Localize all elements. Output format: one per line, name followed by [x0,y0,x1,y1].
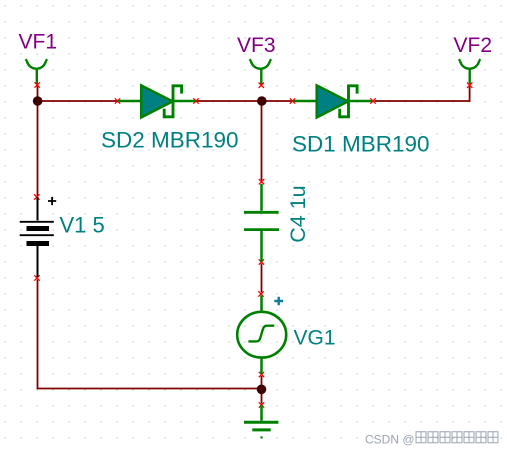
ground [244,405,278,437]
label VF3 [237,34,276,57]
pin x: battery V1 bottom [34,275,39,280]
diode SD1 [294,85,373,117]
label VG1 [294,327,336,350]
label SD2 MBR190 [101,128,239,153]
label V1 5 [60,213,105,238]
wire: capacitor C4 bottom to generator VG1 plus [261,264,263,293]
label SD1 MBR190 [292,132,430,157]
svg-text:VF2: VF2 [454,34,493,57]
svg-text:CSDN @: CSDN @ [365,433,415,447]
pin x: capacitor C4 bottom [259,259,264,264]
pin x: generator VG1 minus [259,372,264,377]
plus sign V1 [48,197,56,205]
pin x: generator VG1 plus [258,291,263,296]
probe VF2 [459,59,480,84]
wire: SD2 cathode to node VF3 [197,100,263,102]
pin x: VF2 probe tip [467,83,472,88]
junction node VF3 [257,96,267,106]
wire: battery V1 bottom to bottom node [38,280,262,389]
wire: node A to SD2 anode [37,100,117,102]
svg-text:SD2 MBR190: SD2 MBR190 [101,128,239,153]
label VF1 [19,31,58,54]
wire: bottom node to ground [261,389,263,404]
junction node A [33,96,43,106]
wire: SD1 cathode to VF2 probe [375,86,470,101]
label C4 1u [286,185,310,242]
pin x: VF3 probe tip [259,83,264,88]
wire: node VF3 to SD1 anode [262,100,292,102]
svg-text:VF1: VF1 [19,31,58,54]
pin x: SD1 cathode [370,98,375,103]
generator VG1 [237,296,286,375]
pin x: SD2 anode [115,98,120,103]
svg-text:V1 5: V1 5 [60,213,105,238]
pin x: VF1 probe tip [35,82,40,87]
wire: generator VG1 minus to bottom node [261,376,263,389]
wire: node VF3 to capacitor C4 top [261,102,263,181]
diode SD2 [118,85,196,117]
pin x: ground top [259,402,264,407]
capacitor C4 [244,184,279,262]
plus sign VG1 [274,297,283,306]
junction bottom node [257,385,267,395]
probe VF1 [26,59,47,84]
probe VF3 [250,59,271,84]
watermark CSDN [365,432,498,447]
pin x: capacitor C4 top [259,179,264,184]
battery V1 [20,197,54,277]
pin x: SD1 anode [290,98,295,103]
wire: VF1 probe to node A to battery V1 top [37,86,39,197]
svg-text:SD1 MBR190: SD1 MBR190 [292,132,430,157]
pin x: SD2 cathode [193,98,198,103]
svg-text:C4 1u: C4 1u [286,185,310,242]
pin x: battery V1 top [34,194,39,199]
svg-text:VF3: VF3 [237,34,276,57]
label VF2 [454,34,493,57]
svg-text:VG1: VG1 [294,327,336,350]
